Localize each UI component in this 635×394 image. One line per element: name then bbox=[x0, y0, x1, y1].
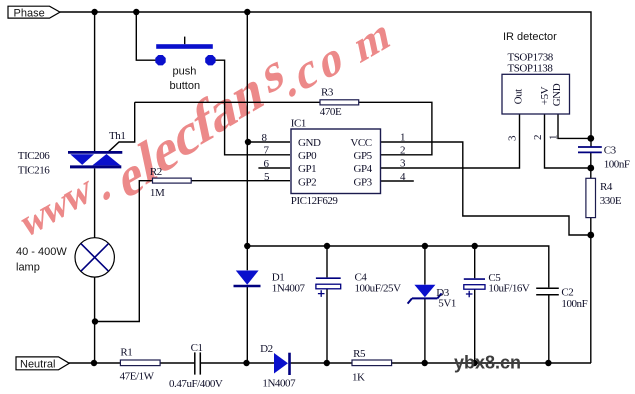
svg-text:push: push bbox=[173, 66, 197, 78]
svg-text:+5V: +5V bbox=[539, 86, 551, 105]
svg-text:GP4: GP4 bbox=[353, 163, 372, 175]
svg-text:Out: Out bbox=[513, 89, 525, 105]
svg-text:GP2: GP2 bbox=[298, 177, 316, 189]
svg-text:IC1: IC1 bbox=[291, 118, 306, 130]
svg-text:IR detector: IR detector bbox=[503, 31, 557, 43]
svg-text:PIC12F629: PIC12F629 bbox=[291, 195, 339, 207]
svg-text:TIC216: TIC216 bbox=[18, 164, 50, 176]
svg-text:1: 1 bbox=[400, 132, 405, 144]
svg-text:1N4007: 1N4007 bbox=[262, 378, 296, 390]
svg-text:C2: C2 bbox=[561, 287, 573, 299]
svg-text:40 - 400W: 40 - 400W bbox=[16, 246, 67, 258]
svg-text:button: button bbox=[170, 80, 201, 92]
svg-text:R1: R1 bbox=[120, 347, 132, 359]
svg-text:TIC206: TIC206 bbox=[18, 150, 50, 162]
svg-text:GND: GND bbox=[551, 83, 563, 106]
svg-text:GP1: GP1 bbox=[298, 163, 316, 175]
svg-text:R4: R4 bbox=[600, 181, 613, 193]
svg-text:D2: D2 bbox=[260, 343, 273, 355]
svg-text:GP0: GP0 bbox=[298, 150, 317, 162]
svg-text:2: 2 bbox=[400, 145, 405, 157]
svg-text:GP3: GP3 bbox=[353, 177, 372, 189]
svg-text:C3: C3 bbox=[604, 145, 617, 157]
svg-text:Th1: Th1 bbox=[109, 130, 125, 142]
svg-text:VCC: VCC bbox=[350, 137, 371, 149]
svg-text:R2: R2 bbox=[150, 166, 162, 178]
svg-text:470E: 470E bbox=[320, 106, 342, 118]
svg-text:Phase: Phase bbox=[14, 7, 45, 19]
svg-text:R5: R5 bbox=[353, 348, 366, 360]
svg-text:100nF: 100nF bbox=[561, 298, 587, 310]
svg-text:C1: C1 bbox=[191, 342, 203, 354]
svg-text:10uF/16V: 10uF/16V bbox=[488, 283, 530, 295]
svg-text:1: 1 bbox=[548, 135, 560, 140]
svg-text:47E/1W: 47E/1W bbox=[120, 371, 155, 383]
svg-text:100nF: 100nF bbox=[604, 159, 630, 171]
svg-text:1N4007: 1N4007 bbox=[272, 283, 306, 295]
svg-text:100uF/25V: 100uF/25V bbox=[355, 283, 402, 295]
svg-text:330E: 330E bbox=[600, 195, 622, 207]
svg-text:ybx8.cn: ybx8.cn bbox=[454, 353, 521, 373]
svg-text:1M: 1M bbox=[150, 187, 165, 199]
svg-text:TSOP1138: TSOP1138 bbox=[508, 63, 554, 75]
svg-text:GND: GND bbox=[298, 137, 321, 149]
svg-text:R3: R3 bbox=[321, 86, 334, 98]
svg-text:2: 2 bbox=[532, 135, 544, 140]
svg-text:Neutral: Neutral bbox=[20, 358, 55, 370]
svg-text:GP5: GP5 bbox=[353, 150, 372, 162]
svg-text:0.47uF/400V: 0.47uF/400V bbox=[169, 378, 223, 390]
svg-text:1K: 1K bbox=[352, 372, 365, 384]
svg-text:lamp: lamp bbox=[16, 261, 40, 273]
svg-text:5V1: 5V1 bbox=[438, 298, 456, 310]
